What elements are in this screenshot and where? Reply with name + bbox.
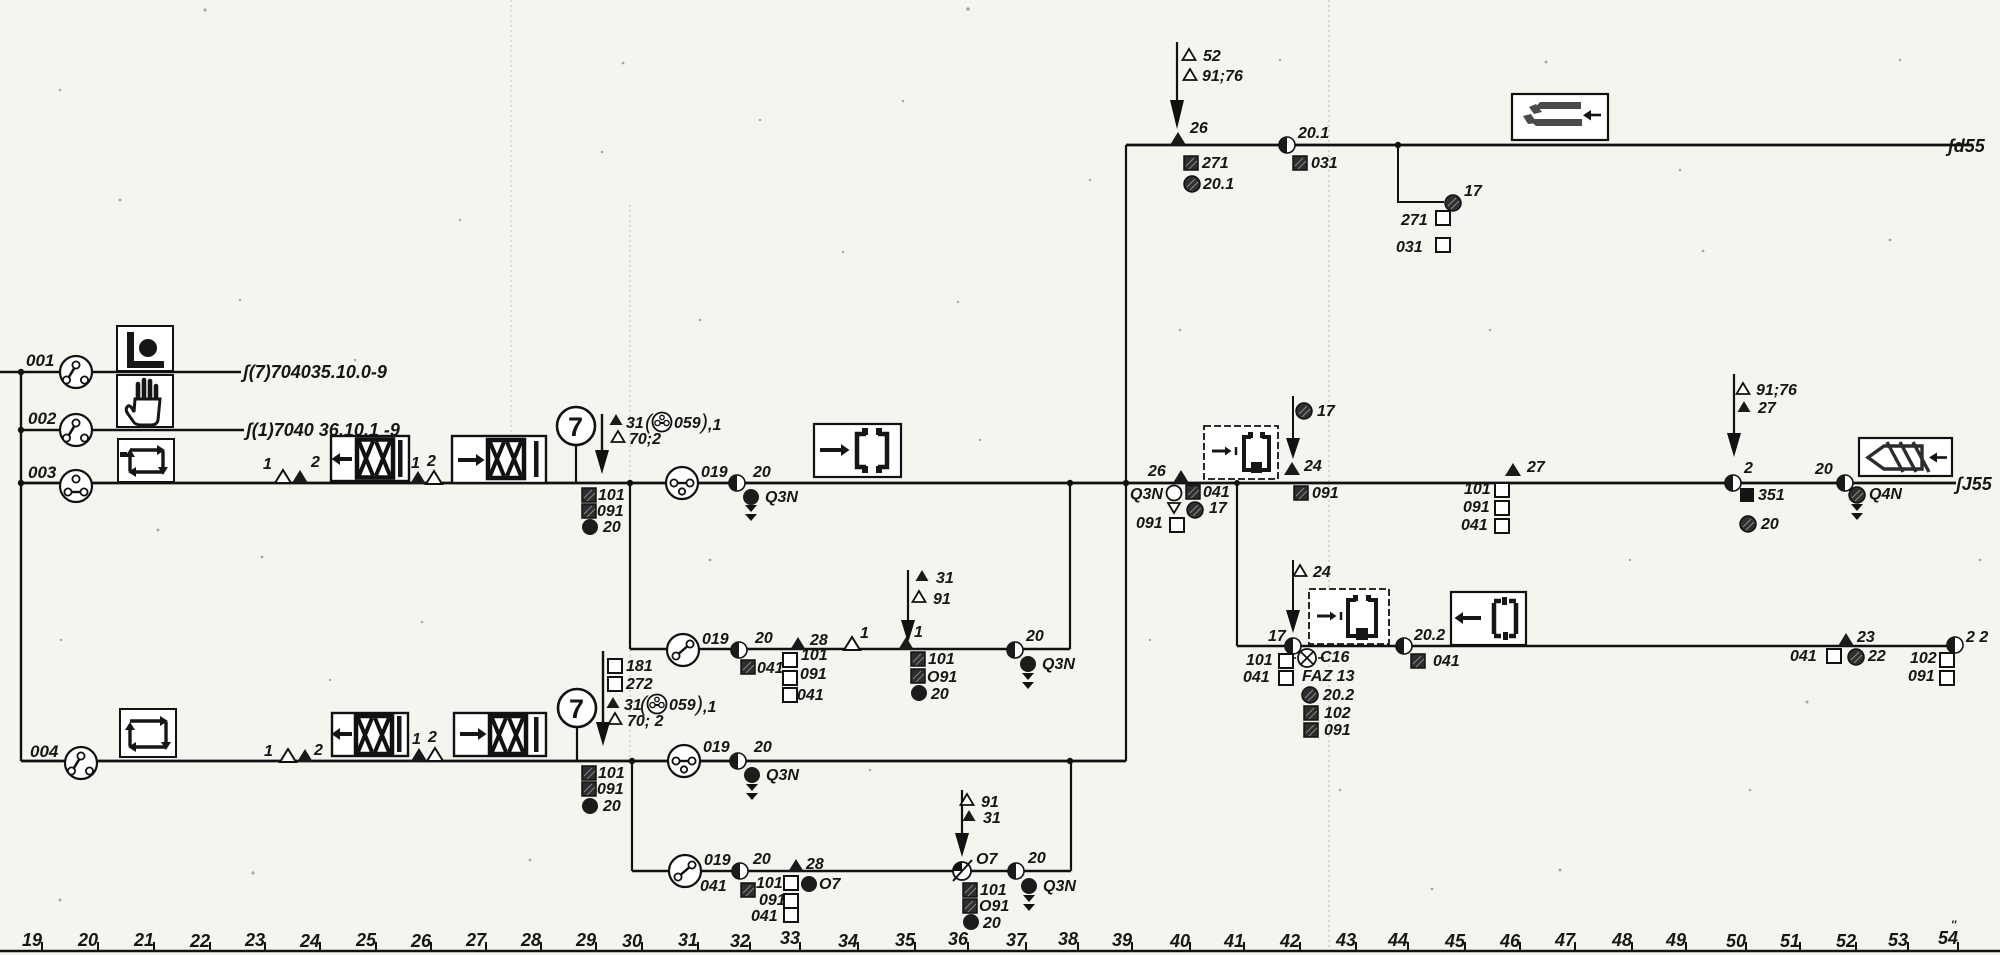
svg-text:52: 52	[1203, 48, 1221, 65]
circle 20 right	[1740, 516, 1756, 532]
svg-text:1: 1	[914, 624, 923, 641]
svg-text:041: 041	[1461, 517, 1488, 534]
stack right of arrow row3: tri31 (059),1	[610, 414, 623, 425]
wire 003	[21, 482, 1956, 485]
svg-text:041: 041	[757, 660, 784, 677]
wire riser branch2 to 004	[1070, 761, 1072, 871]
svg-text:33: 33	[780, 928, 800, 948]
svg-text:1: 1	[263, 456, 272, 473]
bottom scale numbers	[22, 919, 1958, 951]
svg-text:23: 23	[1856, 629, 1875, 646]
wire drop from 003 to branch1	[629, 483, 631, 649]
svg-text:20: 20	[1027, 850, 1046, 867]
svg-text:43: 43	[1335, 930, 1356, 950]
branch2 half 20 end	[1008, 863, 1024, 879]
stack row4: 181 272 31(059),1 70;2	[608, 659, 622, 673]
svg-text:041: 041	[1790, 648, 1817, 665]
top 031	[1293, 156, 1307, 170]
svg-text:31: 31	[936, 570, 954, 587]
bottom scale line	[0, 950, 2000, 953]
branch1 half circle 20	[731, 642, 747, 658]
triangle 27	[1505, 463, 1521, 476]
bracket icon box row3	[814, 424, 901, 477]
svg-text:53: 53	[1888, 930, 1908, 950]
node junction 002	[18, 427, 24, 433]
svg-text:Q3N: Q3N	[766, 767, 799, 784]
svg-text:20.1: 20.1	[1297, 125, 1329, 142]
branch2 hatched sq	[741, 883, 755, 897]
svg-text:004: 004	[30, 742, 59, 761]
svg-text:,1: ,1	[702, 699, 716, 716]
top 20.1 circle	[1184, 176, 1200, 192]
branch1 open triangle 1	[844, 637, 860, 650]
wire branch2	[632, 870, 1071, 872]
svg-text:51: 51	[1780, 931, 1800, 951]
svg-text:7: 7	[568, 412, 583, 442]
svg-text:50: 50	[1726, 931, 1746, 951]
top triangle 26	[1170, 132, 1186, 145]
svg-text:2: 2	[1743, 460, 1753, 477]
wire 004	[21, 760, 1126, 763]
svg-text:20: 20	[752, 851, 771, 868]
svg-text:20: 20	[754, 630, 773, 647]
branch1: 019 circle	[667, 634, 699, 666]
top arrow	[1170, 42, 1184, 129]
wire branch3	[1237, 645, 1948, 647]
svg-text:041: 041	[1433, 653, 1460, 670]
svg-text:17: 17	[1209, 500, 1228, 517]
node 002 switch circle	[60, 414, 92, 446]
branch2 Q3N	[1021, 878, 1037, 894]
svg-text:O91: O91	[927, 669, 957, 686]
node 004 switch circle	[65, 747, 97, 779]
svg-text:102: 102	[1324, 705, 1351, 722]
wire: left vertical bus	[20, 372, 22, 761]
svg-text:26: 26	[1147, 463, 1166, 480]
svg-text:37: 37	[1006, 930, 1027, 950]
svg-text:45: 45	[1444, 931, 1466, 951]
wire branch1	[630, 648, 1070, 650]
svg-text:059: 059	[669, 697, 696, 714]
wire vertical x1126	[1125, 145, 1127, 761]
svg-text:091: 091	[597, 503, 624, 520]
svg-text:Q3N: Q3N	[1042, 656, 1075, 673]
svg-text:019: 019	[701, 464, 728, 481]
svg-text:272: 272	[625, 676, 653, 693]
svg-text:25: 25	[355, 930, 377, 950]
svg-text:ʃJ55: ʃJ55	[1953, 474, 1993, 494]
node 001 switch circle	[60, 356, 92, 388]
svg-text:271: 271	[1201, 155, 1229, 172]
svg-text:20.1: 20.1	[1202, 176, 1234, 193]
svg-text:32: 32	[730, 931, 750, 951]
svg-text:101: 101	[928, 651, 955, 668]
row3 triangle filled	[292, 470, 308, 483]
branch1 triangle 28	[790, 637, 806, 650]
svg-text:001: 001	[26, 351, 54, 370]
wire top L to circle 17	[1398, 145, 1444, 202]
paper fold line left	[510, 0, 512, 470]
svg-text:1: 1	[412, 731, 421, 748]
svg-text:20: 20	[602, 519, 621, 536]
branch2 slashed circle O7	[953, 860, 972, 881]
svg-text:28: 28	[520, 930, 541, 950]
branch2 stack under O7	[963, 883, 977, 897]
branch3 091 square	[1304, 723, 1318, 737]
row4 XX box left	[332, 713, 409, 756]
svg-text:101: 101	[980, 882, 1007, 899]
right icon box	[1859, 438, 1952, 476]
svg-text:002: 002	[28, 409, 57, 428]
svg-text:48: 48	[1611, 930, 1632, 950]
svg-text:34: 34	[838, 931, 858, 951]
node junction 001	[18, 369, 24, 375]
svg-text:31: 31	[626, 415, 644, 432]
svg-text:47: 47	[1554, 930, 1576, 950]
arrow over branch1 triangle	[901, 570, 915, 643]
wire riser branch1 to 003	[1069, 483, 1071, 649]
svg-text:091: 091	[1136, 515, 1163, 532]
svg-text:27: 27	[1526, 459, 1546, 476]
svg-text:7: 7	[569, 694, 584, 724]
half circle 20 row3	[729, 475, 745, 491]
wire: left stub of line 001	[0, 371, 21, 373]
svg-text:20.2: 20.2	[1413, 627, 1445, 644]
wire drop from 003 to branch3	[1236, 483, 1238, 646]
svg-text:30: 30	[622, 931, 642, 951]
branch3 crossed circle C16	[1290, 649, 1324, 667]
svg-text:70;2: 70;2	[629, 431, 661, 448]
svg-text:041: 041	[1243, 669, 1270, 686]
branch3 triangle 23	[1838, 633, 1854, 646]
branch1 Q3N	[1020, 656, 1036, 672]
right arrow 91;76/27	[1727, 374, 1741, 457]
node junction 003	[18, 480, 24, 486]
svg-text:1: 1	[860, 625, 869, 642]
half circle 20.2	[1396, 638, 1412, 654]
wire 002	[21, 429, 244, 431]
half circle 2	[1725, 475, 1741, 491]
svg-text:20.2: 20.2	[1322, 687, 1354, 704]
icon box: corner with dot	[117, 326, 173, 371]
svg-text:49: 49	[1665, 930, 1686, 950]
svg-text:041: 041	[700, 878, 727, 895]
svg-text:36: 36	[948, 929, 969, 949]
svg-text:20: 20	[1814, 461, 1833, 478]
Q4N	[1849, 487, 1865, 503]
svg-text:26: 26	[1189, 120, 1208, 137]
paper fold line middle	[629, 205, 631, 760]
svg-text:C16: C16	[1320, 649, 1349, 666]
svg-text:38: 38	[1058, 929, 1078, 949]
svg-text:FAZ 13: FAZ 13	[1302, 668, 1355, 685]
branch2 arrow	[955, 790, 969, 857]
triangle 24 row3	[1284, 462, 1300, 475]
svg-text:101: 101	[598, 487, 625, 504]
svg-text:059: 059	[674, 415, 701, 432]
svg-text:041: 041	[751, 908, 778, 925]
row4 Q3N	[744, 767, 760, 783]
big arrow row3	[595, 414, 609, 474]
svg-text:091: 091	[800, 666, 827, 683]
icon box: loop (row 004)	[120, 709, 176, 757]
row4 half circle 20	[730, 753, 746, 769]
019 circle row3	[666, 467, 698, 499]
Q3N row3	[743, 489, 759, 505]
row3 XX box left	[331, 436, 409, 481]
svg-text:24: 24	[1303, 458, 1322, 475]
svg-text:Q4N: Q4N	[1869, 486, 1902, 503]
svg-text:22: 22	[1867, 648, 1886, 665]
svg-text:2: 2	[310, 454, 320, 471]
svg-text:42: 42	[1279, 931, 1300, 951]
branch2 triangle 28	[788, 859, 804, 872]
svg-text:17: 17	[1268, 628, 1287, 645]
svg-text:2: 2	[426, 453, 436, 470]
wire 001	[21, 371, 241, 374]
svg-text:23: 23	[244, 930, 265, 950]
svg-text:091: 091	[1908, 668, 1935, 685]
svg-text:181: 181	[626, 658, 653, 675]
svg-text:29: 29	[575, 930, 596, 950]
svg-text:20: 20	[602, 798, 621, 815]
bottom ticks	[42, 942, 1958, 951]
bracket box C	[1451, 592, 1526, 645]
stem from circle7 to wire 003	[575, 445, 577, 483]
square 351	[1740, 488, 1754, 502]
svg-text:24: 24	[1312, 564, 1331, 581]
svg-text:91;76: 91;76	[1756, 382, 1797, 399]
circle 7 row3	[557, 407, 595, 445]
row4: 019 circle on wire	[668, 745, 700, 777]
top circle 17	[1445, 195, 1461, 211]
svg-text:019: 019	[703, 739, 730, 756]
svg-text:ʃd55: ʃd55	[1945, 136, 1986, 156]
svg-text:91: 91	[981, 794, 999, 811]
svg-text:52: 52	[1836, 931, 1856, 951]
paper fold line right	[1328, 0, 1330, 955]
svg-text:″: ″	[1951, 919, 1957, 931]
svg-text:351: 351	[1758, 487, 1785, 504]
stem row4	[576, 727, 578, 761]
svg-text:46: 46	[1499, 931, 1521, 951]
row4 XX box right	[454, 713, 546, 756]
svg-text:1: 1	[411, 455, 420, 472]
svg-text:101: 101	[1246, 652, 1273, 669]
branch2: 019 circle	[669, 855, 701, 887]
symbols under wire at circle7 row3	[582, 488, 596, 502]
svg-text:31: 31	[983, 810, 1001, 827]
091 under triangle 24	[1294, 486, 1308, 500]
svg-text:O91: O91	[979, 898, 1009, 915]
svg-text:O7: O7	[976, 851, 998, 868]
branch3: arrow 24	[1286, 560, 1300, 633]
svg-text:ʃ(7)704035.10.0-9: ʃ(7)704035.10.0-9	[240, 362, 387, 382]
svg-text:40: 40	[1169, 931, 1190, 951]
svg-text:041: 041	[797, 687, 824, 704]
branch2 filled circle O7	[801, 876, 817, 892]
svg-text:,1: ,1	[707, 417, 721, 434]
svg-text:39: 39	[1112, 930, 1132, 950]
dashed bracket box B	[1309, 589, 1389, 644]
svg-text:27: 27	[465, 930, 487, 950]
svg-text:Q3N: Q3N	[1043, 878, 1076, 895]
arrow mid with circle 17	[1286, 396, 1300, 459]
top 271 square	[1184, 156, 1198, 170]
svg-text:20: 20	[930, 686, 949, 703]
svg-text:101: 101	[756, 875, 783, 892]
svg-text:101: 101	[801, 647, 828, 664]
svg-text:91: 91	[933, 591, 951, 608]
svg-text:019: 019	[702, 631, 729, 648]
svg-text:20: 20	[77, 930, 98, 950]
svg-text:041: 041	[1203, 484, 1230, 501]
icon box: loop small	[118, 439, 174, 482]
svg-text:091: 091	[1324, 722, 1351, 739]
svg-text:91;76: 91;76	[1202, 68, 1243, 85]
svg-text:20: 20	[1025, 628, 1044, 645]
041 hatched under	[1411, 654, 1425, 668]
branch3 end half 22	[1947, 637, 1963, 653]
dashed bracket box A	[1204, 426, 1278, 479]
svg-text:20: 20	[752, 464, 771, 481]
svg-text:031: 031	[1396, 239, 1423, 256]
svg-text:O7: O7	[819, 876, 841, 893]
junction dots	[627, 480, 633, 486]
svg-text:26: 26	[410, 931, 432, 951]
big arrow row4	[596, 651, 610, 746]
svg-text:19: 19	[22, 930, 42, 950]
svg-text:091: 091	[1463, 499, 1490, 516]
svg-text:101: 101	[598, 765, 625, 782]
svg-text:003: 003	[28, 463, 57, 482]
svg-text:24: 24	[299, 931, 320, 951]
svg-text:019: 019	[704, 852, 731, 869]
branch3 102 square	[1304, 706, 1318, 720]
svg-text:27: 27	[1757, 400, 1777, 417]
svg-text:17: 17	[1317, 403, 1336, 420]
svg-text:28: 28	[805, 856, 824, 873]
branch1 stack 101/091/041	[783, 653, 797, 667]
branch1 end half circle	[1007, 642, 1023, 658]
svg-text:44: 44	[1387, 930, 1408, 950]
wire drop from 004 to branch2	[631, 761, 633, 871]
branch3 20.2 circle	[1302, 687, 1318, 703]
svg-text:Q3N: Q3N	[1130, 486, 1163, 503]
row3 XX box right	[452, 436, 546, 483]
wire top Sd55	[1126, 144, 1973, 147]
node 003 switch circle	[60, 470, 92, 502]
svg-text:41: 41	[1223, 931, 1244, 951]
branch2 half 20	[732, 863, 748, 879]
svg-text:21: 21	[133, 930, 154, 950]
svg-text:091: 091	[759, 892, 786, 909]
svg-text:101: 101	[1464, 481, 1491, 498]
branch1 041 hatched	[741, 660, 755, 674]
svg-text:2: 2	[313, 742, 323, 759]
svg-text:70; 2: 70; 2	[627, 713, 664, 730]
top icon box	[1512, 94, 1608, 140]
svg-text:31: 31	[678, 930, 698, 950]
icon box: hand	[117, 375, 173, 427]
branch1 filled triangle 1	[898, 637, 914, 650]
svg-text:20: 20	[1760, 516, 1779, 533]
svg-text:54: 54	[1938, 928, 1958, 948]
svg-text:271: 271	[1400, 212, 1428, 229]
svg-text:031: 031	[1311, 155, 1338, 172]
branch1 stack at filled triangle	[911, 652, 925, 666]
svg-text:1: 1	[264, 743, 273, 760]
circle 7 row4	[558, 689, 596, 727]
svg-text:20: 20	[982, 915, 1001, 932]
svg-text:091: 091	[597, 781, 624, 798]
svg-text:Q3N: Q3N	[765, 489, 798, 506]
svg-text:102: 102	[1910, 650, 1937, 667]
svg-text:20: 20	[753, 739, 772, 756]
svg-text:2: 2	[427, 729, 437, 746]
svg-text:091: 091	[1312, 485, 1339, 502]
top half circle 20.1	[1279, 137, 1295, 153]
svg-text:22: 22	[189, 931, 210, 951]
svg-text:17: 17	[1464, 183, 1483, 200]
symbols under wire at circle7 row4	[582, 766, 596, 780]
svg-text:2 2: 2 2	[1965, 629, 1988, 646]
svg-text:35: 35	[895, 930, 916, 950]
